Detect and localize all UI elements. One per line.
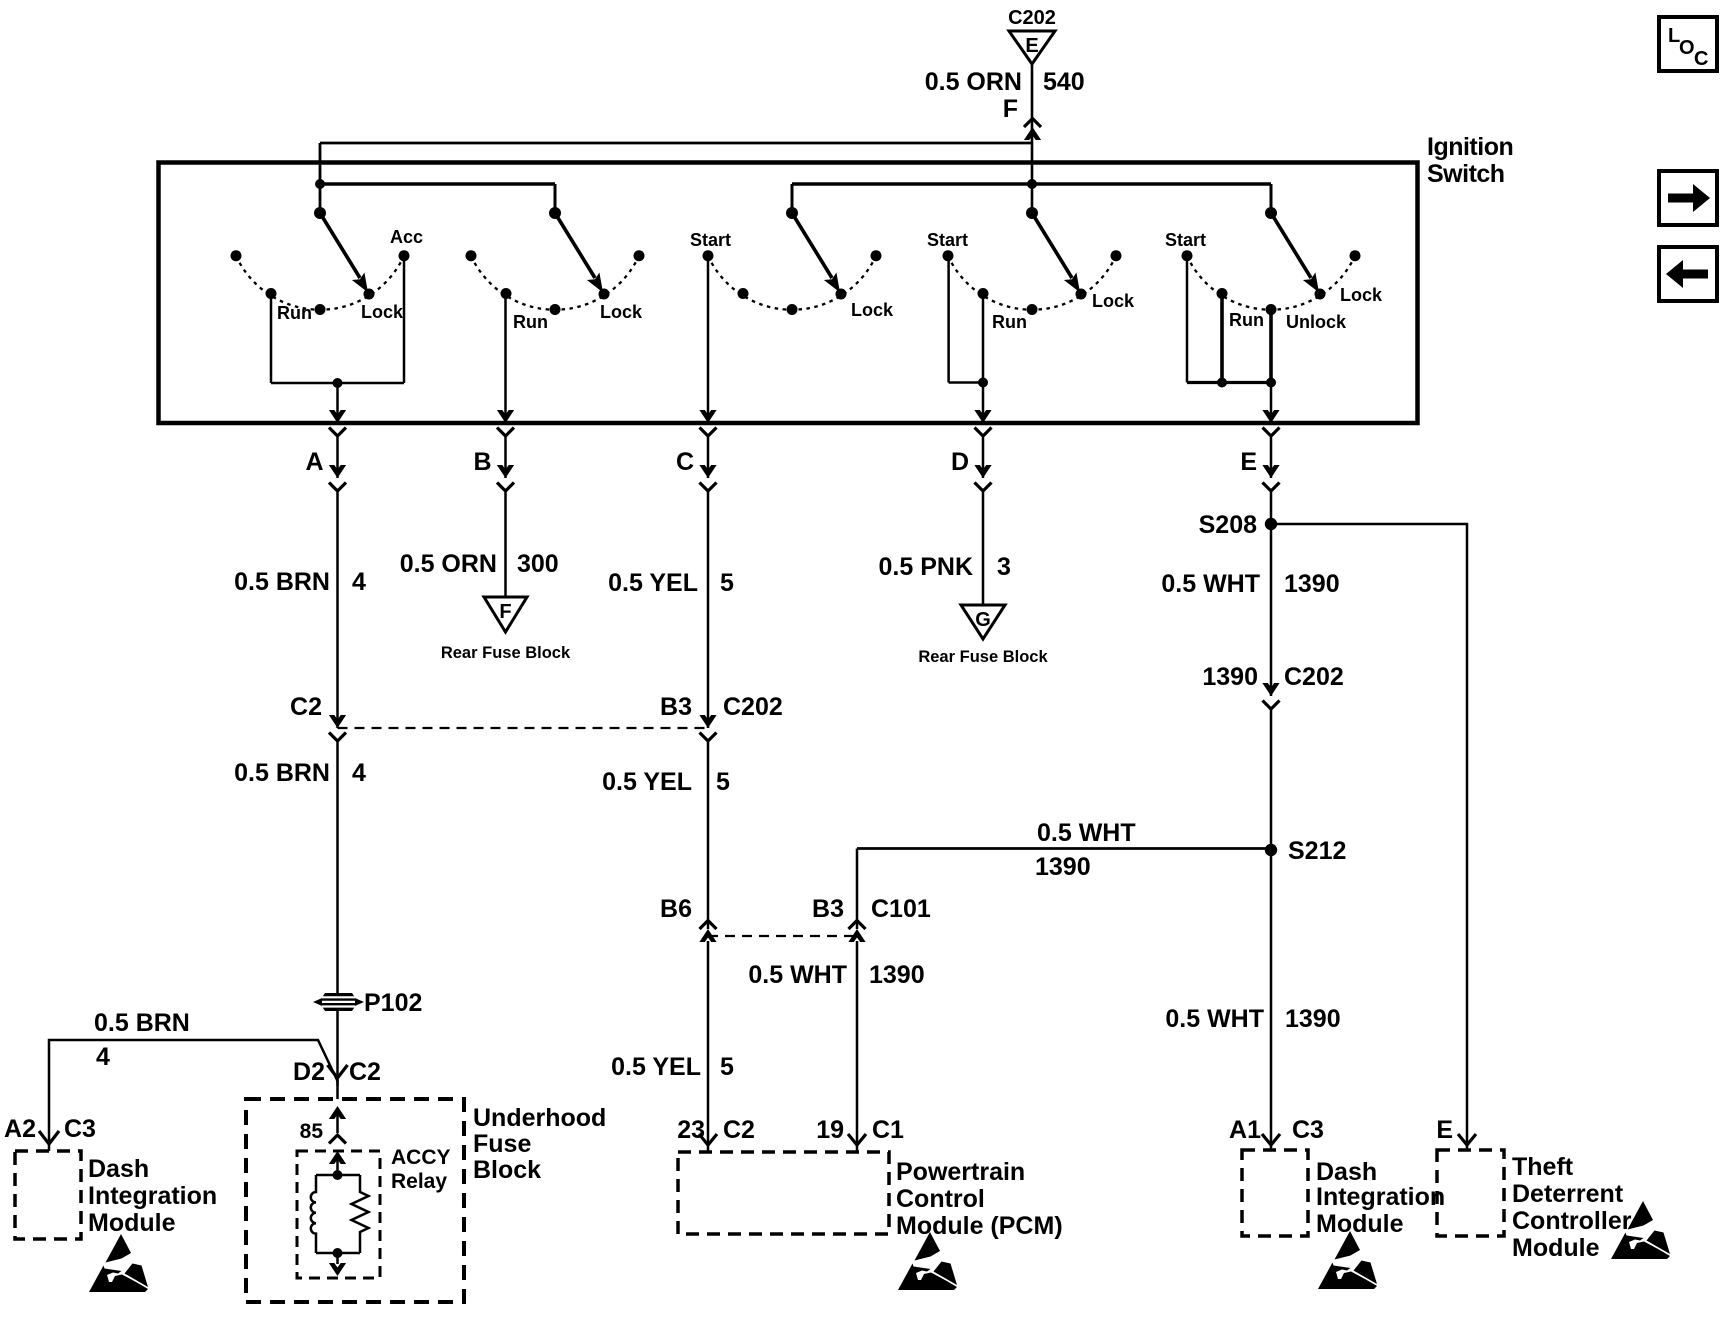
wire 0.5 PNK circuit 3 xyxy=(982,491,985,605)
svg-text:C202: C202 xyxy=(1008,7,1056,29)
connector crossing at box edge pin E xyxy=(1262,410,1279,423)
connector Y at DIM pin A1 xyxy=(1262,1134,1280,1145)
connector crossing 2 pin A xyxy=(329,465,346,478)
connector G triangle (rear fuse block) xyxy=(961,605,1005,639)
svg-text:Lock: Lock xyxy=(361,302,404,322)
svg-text:300: 300 xyxy=(517,550,559,578)
wire 0.5 YEL circuit 5 (mid) xyxy=(707,741,710,929)
relay coil (inductor) xyxy=(311,1175,316,1253)
svg-text:C3: C3 xyxy=(64,1115,96,1143)
svg-text:B6: B6 xyxy=(660,895,692,923)
svg-text:Integration: Integration xyxy=(1316,1183,1445,1211)
svg-text:Module: Module xyxy=(1512,1234,1600,1262)
svg-text:0.5 YEL: 0.5 YEL xyxy=(608,569,698,597)
junction dot at D feed xyxy=(1027,179,1037,189)
wire from Run contact section 1 xyxy=(270,294,273,384)
wire vertical feed to pivot E xyxy=(1270,184,1273,213)
svg-text:E: E xyxy=(1240,448,1257,476)
svg-text:0.5 YEL: 0.5 YEL xyxy=(611,1053,701,1081)
wire 0.5 WHT 1390 (S212 to DIM) xyxy=(1270,850,1273,1145)
svg-text:5: 5 xyxy=(716,768,730,796)
wire vertical feed to pivot A xyxy=(319,143,322,213)
svg-text:D2: D2 xyxy=(293,1058,325,1086)
svg-text:1390: 1390 xyxy=(1202,663,1258,691)
wire 0.5 ORN 540 vertical from triangle E xyxy=(1031,64,1034,213)
svg-text:0.5 BRN: 0.5 BRN xyxy=(234,759,330,787)
svg-text:0.5 BRN: 0.5 BRN xyxy=(234,568,330,596)
connector crossing C202 col E xyxy=(1262,683,1279,696)
svg-text:Unlock: Unlock xyxy=(1286,312,1347,332)
connector crossing at box edge pin D xyxy=(974,410,991,423)
svg-text:ACCY: ACCY xyxy=(391,1146,451,1169)
svg-text:C2: C2 xyxy=(349,1058,381,1086)
svg-text:0.5 ORN: 0.5 ORN xyxy=(925,68,1022,96)
splice S208 xyxy=(1265,518,1277,530)
wire joining Run+Acc section 1 xyxy=(271,382,404,385)
wire output D from Run contact xyxy=(982,294,985,423)
wire joining Start to Run section 4 xyxy=(949,381,983,384)
wire output C from Start contact xyxy=(707,256,710,423)
svg-text:A1: A1 xyxy=(1229,1116,1261,1144)
relay branch top bar xyxy=(316,1174,360,1177)
LOC legend box xyxy=(1659,17,1717,71)
wire 0.5 WHT 1390 (S208 to C202) xyxy=(1270,524,1273,696)
splice S212 xyxy=(1265,844,1277,856)
svg-text:Deterrent: Deterrent xyxy=(1512,1180,1624,1208)
svg-text:Start: Start xyxy=(1165,230,1206,250)
svg-text:G: G xyxy=(975,609,991,631)
connector crossing 2 pin D xyxy=(974,465,991,478)
connector crossing C2/C202 col A xyxy=(329,715,346,728)
svg-text:Underhood: Underhood xyxy=(473,1104,606,1132)
svg-text:4: 4 xyxy=(352,759,366,787)
svg-text:A2: A2 xyxy=(4,1115,36,1143)
wire 0.5 YEL circuit 5 (lower) xyxy=(707,941,710,1145)
svg-text:F: F xyxy=(1003,95,1018,123)
svg-text:1390: 1390 xyxy=(1284,570,1340,598)
connector crossing B3/C202 col C xyxy=(699,715,716,728)
junction node relay top xyxy=(333,1170,343,1180)
svg-text:4: 4 xyxy=(96,1043,110,1071)
wire pin D below box xyxy=(982,436,985,478)
grommet P102 xyxy=(319,993,358,1011)
svg-text:Block: Block xyxy=(473,1156,541,1184)
ESD sensitivity symbol (PCM) xyxy=(898,1232,957,1290)
svg-text:C3: C3 xyxy=(1292,1116,1324,1144)
svg-text:C101: C101 xyxy=(871,895,931,923)
wire/terminal 85 arrow xyxy=(336,1110,339,1133)
ignition switch section 4 (Start/Run/Lock) rotor contacts xyxy=(948,256,1116,310)
ignition switch section 1 (Acc/Run/Lock) rotor contacts xyxy=(236,256,404,310)
ignition switch section 2 (Run/Lock) rotor contacts xyxy=(471,256,639,310)
svg-text:Run: Run xyxy=(992,312,1027,332)
svg-text:1390: 1390 xyxy=(869,961,925,989)
svg-text:Run: Run xyxy=(513,312,548,332)
wire pin A below box xyxy=(336,436,339,478)
junction node section 4 output xyxy=(978,378,988,388)
svg-text:Lock: Lock xyxy=(600,302,643,322)
wire from Start contact section 4 xyxy=(947,256,950,383)
wire vertical feed to pivot B xyxy=(554,184,557,213)
svg-text:Dash: Dash xyxy=(88,1155,149,1183)
svg-text:F: F xyxy=(499,601,511,623)
wire from Acc contact section 1 xyxy=(403,256,406,383)
ESD sensitivity symbol (DIM left) xyxy=(89,1234,148,1292)
wire 0.5 WHT 1390 from S212 corner xyxy=(856,849,859,930)
wire output E inside box xyxy=(1270,383,1273,424)
connector Y at theft module pin E xyxy=(1458,1134,1476,1145)
wire 0.5 WHT 1390 to PCM pin 19 xyxy=(856,941,859,1145)
wire branch 0.5 BRN 4 to Dash Integration Module xyxy=(49,1040,338,1141)
svg-text:Run: Run xyxy=(277,303,312,323)
svg-text:C202: C202 xyxy=(1284,663,1344,691)
module ACCY Relay box xyxy=(297,1151,380,1278)
svg-text:A: A xyxy=(305,448,323,476)
connector crossing at box edge pin B xyxy=(497,410,514,423)
svg-text:S212: S212 xyxy=(1288,837,1346,865)
wire 0.5 BRN circuit 4 (col A upper) xyxy=(336,491,339,728)
wire vertical feed to pivot C xyxy=(791,184,794,213)
svg-text:D: D xyxy=(951,448,969,476)
wire bus inside box A-B xyxy=(320,182,555,185)
svg-text:85: 85 xyxy=(300,1120,324,1143)
connector F triangle (rear fuse block) xyxy=(484,597,527,632)
svg-text:Module (PCM): Module (PCM) xyxy=(896,1212,1063,1240)
module Theft Deterrent Controller Module box xyxy=(1437,1150,1504,1236)
ESD sensitivity symbol (Theft) xyxy=(1611,1201,1670,1259)
ESD sensitivity symbol (DIM right) xyxy=(1318,1231,1377,1289)
svg-text:Start: Start xyxy=(927,230,968,250)
connector crossing at box edge pin C xyxy=(699,410,716,423)
ignition switch box xyxy=(159,163,1418,424)
relay coil feed arrow xyxy=(336,1157,339,1175)
wire 0.5 BRN circuit 4 (col A lower) xyxy=(336,741,339,993)
wire bus inside box C-E xyxy=(792,182,1271,185)
relay output arrow xyxy=(336,1253,339,1264)
svg-text:Controller: Controller xyxy=(1512,1207,1632,1235)
wire 0.5 BRN below P102 xyxy=(336,1011,339,1086)
junction dot at A feed xyxy=(315,179,325,189)
connector crossing C202 on ORN wire (up arrow) xyxy=(1024,127,1041,140)
svg-text:Fuse: Fuse xyxy=(473,1130,531,1158)
svg-text:S208: S208 xyxy=(1199,511,1257,539)
svg-text:1390: 1390 xyxy=(1035,853,1091,881)
svg-text:23: 23 xyxy=(677,1116,705,1144)
svg-text:C2: C2 xyxy=(723,1116,755,1144)
svg-text:B3: B3 xyxy=(660,693,692,721)
ignition switch section 3 (Start/Lock) rotor contacts xyxy=(708,256,876,310)
wire from Unlock contact section 5 xyxy=(1269,310,1273,383)
svg-text:0.5 PNK: 0.5 PNK xyxy=(879,553,973,581)
connector C101 dashed line xyxy=(708,935,857,937)
svg-text:Lock: Lock xyxy=(1340,285,1383,305)
svg-text:Powertrain: Powertrain xyxy=(896,1158,1025,1186)
svg-text:E: E xyxy=(1436,1116,1453,1144)
svg-text:E: E xyxy=(1025,35,1038,57)
svg-text:Rear Fuse Block: Rear Fuse Block xyxy=(441,644,571,662)
connector crossing B3/C101 (up) xyxy=(848,929,865,942)
svg-text:Switch: Switch xyxy=(1427,160,1505,188)
svg-text:Rear Fuse Block: Rear Fuse Block xyxy=(918,648,1048,666)
svg-text:4: 4 xyxy=(352,568,366,596)
svg-text:3: 3 xyxy=(997,553,1011,581)
wire from Run contact section 5 xyxy=(1220,294,1224,383)
svg-text:Dash: Dash xyxy=(1316,1158,1377,1186)
connector Y at PCM pin 19 xyxy=(848,1134,866,1145)
nav arrow left box xyxy=(1659,247,1717,301)
svg-text:O: O xyxy=(1679,37,1695,59)
svg-text:0.5 WHT: 0.5 WHT xyxy=(1165,1005,1264,1033)
svg-text:B: B xyxy=(473,448,491,476)
svg-text:Control: Control xyxy=(896,1185,985,1213)
wire joining contacts section 5 xyxy=(1187,381,1271,384)
svg-text:Relay: Relay xyxy=(391,1170,447,1193)
relay resistor xyxy=(352,1175,369,1253)
svg-text:P102: P102 xyxy=(364,989,422,1017)
wire pin E below box xyxy=(1270,436,1273,478)
svg-text:C: C xyxy=(1694,48,1708,70)
connector E triangle (to C202) xyxy=(1009,31,1055,64)
svg-text:Acc: Acc xyxy=(390,227,423,247)
junction node Run section 5 xyxy=(1217,378,1227,388)
junction node Unlock section 5 xyxy=(1266,378,1276,388)
wire bus (above box) from section A to ORN feed xyxy=(320,142,1032,145)
module Powertrain Control Module box xyxy=(678,1152,889,1234)
wire 0.5 ORN circuit 300 xyxy=(504,491,507,597)
svg-text:Start: Start xyxy=(690,230,731,250)
connector crossing B6/C101 col C (up) xyxy=(699,929,716,942)
svg-text:Ignition: Ignition xyxy=(1427,133,1513,161)
svg-text:0.5 WHT: 0.5 WHT xyxy=(748,961,847,989)
wire from Start contact section 5 xyxy=(1186,256,1189,383)
svg-text:Run: Run xyxy=(1229,310,1264,330)
svg-text:B3: B3 xyxy=(812,895,844,923)
svg-text:Integration: Integration xyxy=(88,1182,217,1210)
svg-text:C202: C202 xyxy=(723,693,783,721)
connector crossing at box edge pin A xyxy=(329,410,346,423)
junction node relay bottom xyxy=(333,1248,343,1258)
svg-text:Module: Module xyxy=(1316,1210,1404,1238)
nav arrow right box xyxy=(1659,171,1717,225)
wire 0.5 WHT 1390 horizontal to S212 xyxy=(857,847,1271,850)
svg-text:0.5 BRN: 0.5 BRN xyxy=(94,1009,190,1037)
connector crossing 2 pin C xyxy=(699,465,716,478)
junction node section 1 output xyxy=(333,378,343,388)
svg-text:C1: C1 xyxy=(872,1116,904,1144)
wire S208 branch to theft deterrent module xyxy=(1271,524,1467,1145)
svg-text:Lock: Lock xyxy=(851,300,894,320)
svg-text:0.5 WHT: 0.5 WHT xyxy=(1037,819,1136,847)
svg-text:1390: 1390 xyxy=(1285,1005,1341,1033)
svg-text:5: 5 xyxy=(720,569,734,597)
module Dash Integration Module (left) box xyxy=(15,1151,81,1239)
svg-text:540: 540 xyxy=(1043,68,1085,96)
wire pin B below box xyxy=(504,436,507,478)
wire 0.5 WHT circuit 1390 (E to S208) xyxy=(1270,491,1273,524)
wire pin C below box xyxy=(707,436,710,478)
relay branch bottom bar xyxy=(316,1252,360,1255)
wire output A inside box xyxy=(336,383,339,423)
svg-text:C2: C2 xyxy=(290,693,322,721)
svg-text:C: C xyxy=(676,448,694,476)
module Dash Integration Module (right) box xyxy=(1242,1150,1308,1236)
connector C202 dashed line (left) xyxy=(338,727,709,729)
svg-text:5: 5 xyxy=(720,1053,734,1081)
wire 0.5 WHT 1390 (C202 to S212) xyxy=(1270,709,1273,850)
svg-text:0.5 ORN: 0.5 ORN xyxy=(400,550,497,578)
svg-text:Theft: Theft xyxy=(1512,1153,1574,1181)
svg-text:0.5 YEL: 0.5 YEL xyxy=(602,768,692,796)
wire output B from Run contact xyxy=(504,294,507,424)
connector crossing 2 pin E xyxy=(1262,465,1279,478)
svg-text:19: 19 xyxy=(816,1116,844,1144)
ignition switch section 5 (Start/Run/Unlock/Lock) rotor contacts xyxy=(1187,256,1355,310)
wire 0.5 YEL circuit 5 (upper) xyxy=(707,491,710,728)
connector Y at PCM pin 23 xyxy=(699,1134,717,1145)
svg-text:0.5 WHT: 0.5 WHT xyxy=(1161,570,1260,598)
connector crossing 2 pin B xyxy=(497,465,514,478)
connector Y at DIM pin A2 xyxy=(39,1131,59,1144)
svg-text:Module: Module xyxy=(88,1209,176,1237)
svg-text:Lock: Lock xyxy=(1092,291,1135,311)
connector Y at underhood fuse block D2/C2 xyxy=(328,1065,348,1078)
module Underhood Fuse Block box xyxy=(246,1099,464,1302)
